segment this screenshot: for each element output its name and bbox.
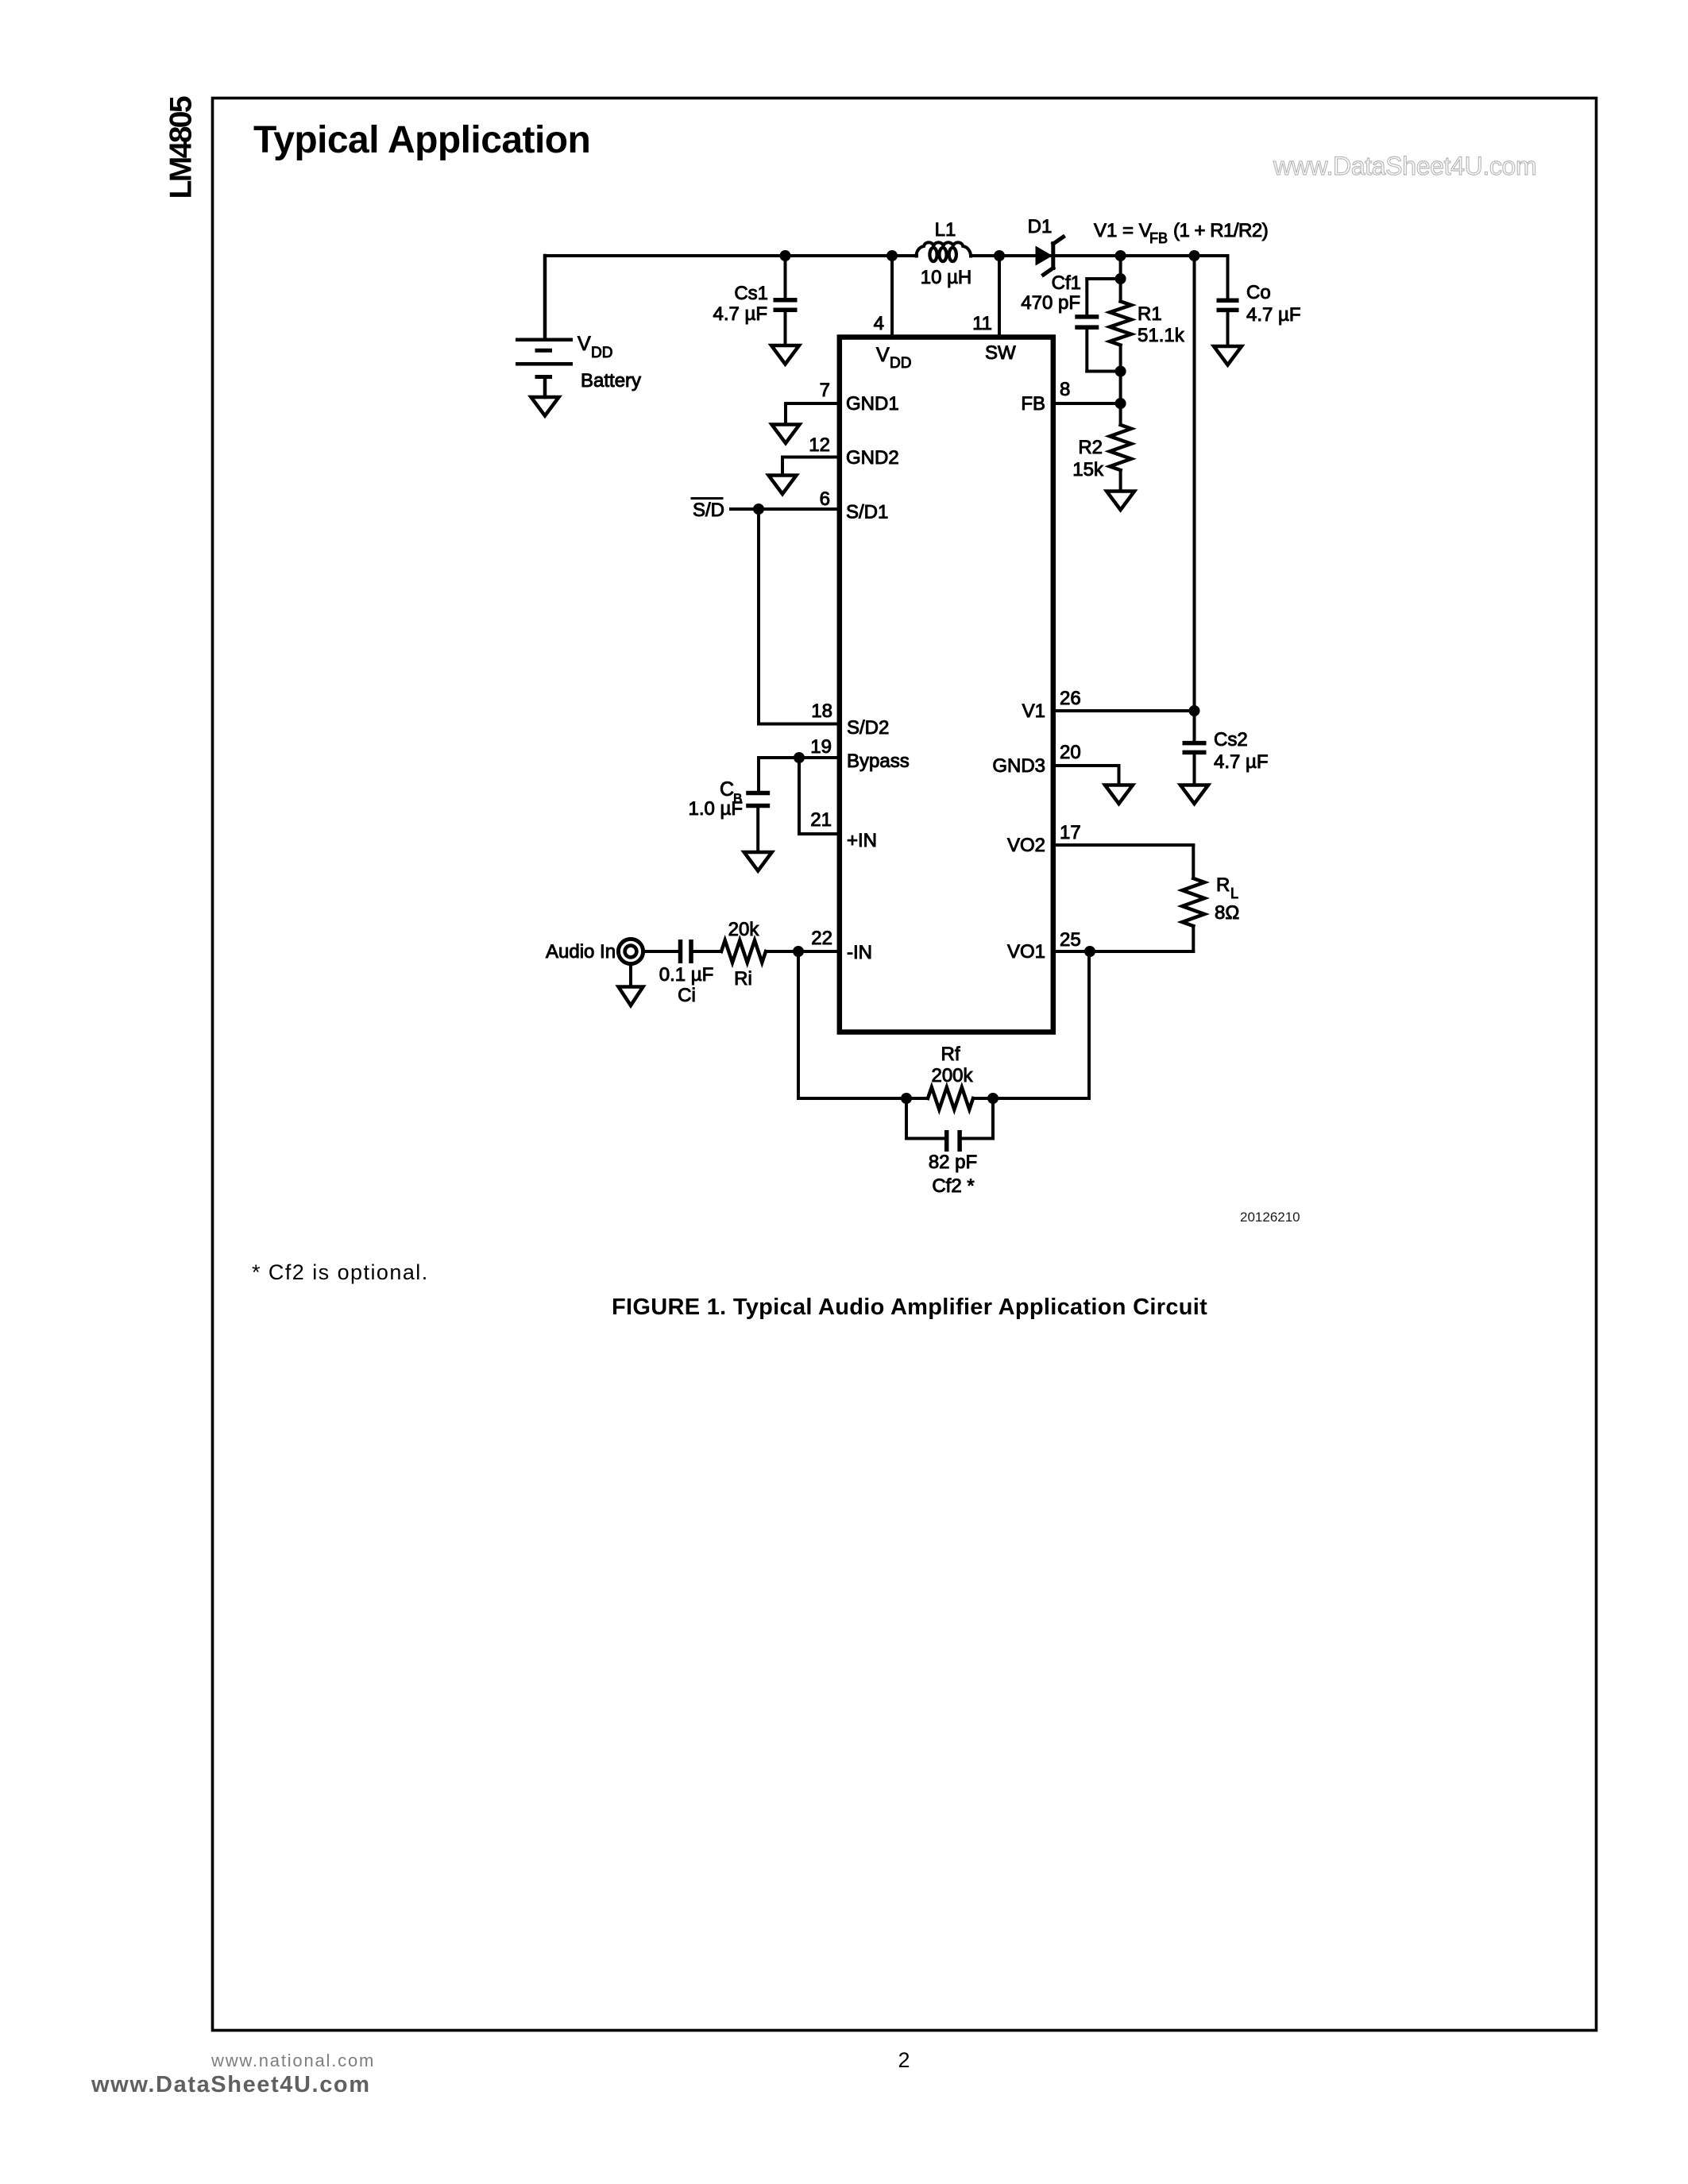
svg-text:LM4805: LM4805 bbox=[164, 96, 199, 199]
wire pin 7 GND1 bbox=[786, 403, 840, 425]
svg-text:22: 22 bbox=[811, 928, 832, 949]
svg-text:V1 = V: V1 = V bbox=[1094, 220, 1152, 241]
svg-text:R2: R2 bbox=[1078, 437, 1103, 458]
svg-text:Cf2 *: Cf2 * bbox=[932, 1175, 974, 1197]
wire pin 4 stub bbox=[890, 256, 894, 337]
svg-text:4.7 µF: 4.7 µF bbox=[1214, 751, 1269, 773]
wire node riser to Cf1/R1 bbox=[1119, 256, 1122, 279]
svg-text:1.0 µF: 1.0 µF bbox=[688, 798, 743, 820]
svg-text:D1: D1 bbox=[1028, 216, 1053, 237]
svg-text:15k: 15k bbox=[1072, 459, 1104, 480]
node dot V1 riser tap bbox=[1189, 250, 1200, 261]
capacitor Cf2 82pF bbox=[906, 1098, 993, 1152]
svg-text:Rf: Rf bbox=[941, 1044, 960, 1065]
svg-text:FB: FB bbox=[1149, 230, 1168, 246]
node dot -IN bbox=[793, 946, 804, 957]
wire pin 26 V1 bbox=[1053, 709, 1195, 712]
svg-text:20126210: 20126210 bbox=[1240, 1210, 1300, 1225]
svg-text:S/D: S/D bbox=[693, 500, 724, 521]
capacitor Co 4.7uF bbox=[1217, 256, 1239, 346]
node dot Cs1 tap bbox=[780, 250, 791, 261]
svg-text:Battery: Battery bbox=[581, 370, 641, 392]
node dot Cf1 bottom bbox=[1115, 366, 1126, 377]
svg-text:L: L bbox=[1230, 886, 1238, 901]
svg-text:www.DataSheet4U.com: www.DataSheet4U.com bbox=[1273, 152, 1536, 180]
ground below Co bbox=[1214, 346, 1242, 365]
wire Ri to pin 22 bbox=[766, 950, 840, 953]
svg-text:C: C bbox=[720, 778, 734, 801]
svg-text:4.7 µF: 4.7 µF bbox=[1246, 304, 1301, 326]
node dot Bypass bbox=[794, 752, 805, 763]
svg-text:Ri: Ri bbox=[734, 968, 752, 990]
ground below connector bbox=[629, 965, 632, 986]
svg-text:82 pF: 82 pF bbox=[929, 1152, 977, 1173]
capacitor Ci 0.1uF bbox=[644, 940, 721, 963]
svg-text:DD: DD bbox=[591, 345, 612, 361]
wire feedback right riser bbox=[1087, 951, 1091, 1098]
svg-text:Cs1: Cs1 bbox=[734, 283, 768, 304]
svg-text:+IN: +IN bbox=[847, 830, 877, 851]
ground below Cs2 bbox=[1180, 785, 1208, 805]
wire pin 20 GND3 bbox=[1053, 766, 1119, 785]
svg-text:Ci: Ci bbox=[678, 985, 696, 1006]
ground pin 12 bbox=[769, 476, 797, 495]
inductor L1 10uH bbox=[916, 242, 971, 261]
svg-text:470 pF: 470 pF bbox=[1021, 292, 1080, 314]
svg-text:12: 12 bbox=[809, 434, 830, 456]
svg-text:20: 20 bbox=[1060, 742, 1081, 763]
node dot VO1 bbox=[1084, 946, 1095, 957]
wire top rail right (L1 to Co corner) bbox=[971, 254, 1228, 257]
svg-text:8Ω: 8Ω bbox=[1215, 902, 1239, 924]
svg-text:www.DataSheet4U.com: www.DataSheet4U.com bbox=[91, 2072, 371, 2097]
wire pin 12 GND2 bbox=[782, 457, 840, 476]
node dot V1/Cs2 bbox=[1189, 705, 1200, 716]
svg-text:200k: 200k bbox=[931, 1065, 973, 1086]
node dot Cf1 top bbox=[1115, 273, 1126, 284]
svg-text:L1: L1 bbox=[935, 219, 956, 241]
wire top rail left (battery to L1) bbox=[545, 254, 917, 257]
ground below Cs1 bbox=[771, 345, 799, 365]
svg-text:V: V bbox=[577, 333, 591, 355]
battery BT1 VDD bbox=[516, 256, 573, 397]
svg-text:FIGURE 1. Typical Audio Amplif: FIGURE 1. Typical Audio Amplifier Applic… bbox=[612, 1295, 1207, 1320]
capacitor Cs1 4.7uF bbox=[774, 256, 798, 345]
svg-text:4: 4 bbox=[874, 313, 884, 334]
svg-text:Bypass: Bypass bbox=[847, 751, 910, 772]
svg-text:www.national.com: www.national.com bbox=[211, 2051, 375, 2070]
svg-text:SW: SW bbox=[985, 342, 1016, 364]
ground below battery bbox=[531, 397, 559, 416]
capacitor Cf1 470pF branch bbox=[1075, 279, 1120, 372]
svg-text:10 µH: 10 µH bbox=[921, 267, 972, 288]
svg-text:Co: Co bbox=[1246, 282, 1271, 303]
svg-text:Typical Application: Typical Application bbox=[253, 119, 590, 161]
ground pin 7 bbox=[772, 425, 800, 444]
svg-text:VO2: VO2 bbox=[1007, 835, 1045, 856]
svg-text:FB: FB bbox=[1021, 393, 1045, 415]
ground below R2 bbox=[1107, 492, 1134, 511]
wire pin 17 VO2 to RL bbox=[1053, 845, 1194, 878]
wire pin 25 VO1 bbox=[1053, 950, 1194, 953]
page border frame bbox=[213, 98, 1597, 2031]
svg-text:GND1: GND1 bbox=[846, 393, 899, 415]
resistor RL 8ohm bbox=[1182, 878, 1204, 951]
diode D1 bbox=[1036, 237, 1064, 275]
svg-text:0.1 µF: 0.1 µF bbox=[659, 964, 714, 986]
node dot S/D bbox=[753, 504, 764, 515]
ground below CB bbox=[744, 852, 772, 871]
node dot output node on rail bbox=[1115, 250, 1126, 261]
svg-text:S/D2: S/D2 bbox=[847, 717, 889, 739]
svg-text:(1 + R1/R2): (1 + R1/R2) bbox=[1173, 220, 1268, 241]
svg-text:2: 2 bbox=[898, 2048, 910, 2072]
svg-text:Audio In: Audio In bbox=[546, 941, 616, 963]
resistor R1 51.1k bbox=[1110, 279, 1131, 403]
svg-text:8: 8 bbox=[1060, 379, 1070, 400]
svg-text:20k: 20k bbox=[728, 919, 760, 940]
IC U1 LM4805 body bbox=[840, 338, 1053, 1032]
node dot Cf2 right bbox=[987, 1093, 999, 1104]
node dot FB node bbox=[1115, 398, 1126, 409]
wire Bypass to pin 21 bbox=[799, 758, 840, 834]
svg-text:DD: DD bbox=[890, 355, 911, 372]
resistor Ri 20k bbox=[721, 940, 766, 963]
svg-text:R1: R1 bbox=[1138, 303, 1162, 325]
svg-text:GND2: GND2 bbox=[846, 447, 899, 469]
svg-text:17: 17 bbox=[1060, 822, 1081, 843]
capacitor CB 1.0uF bbox=[746, 758, 770, 852]
node dot pin11 tap bbox=[994, 250, 1005, 261]
svg-text:GND3: GND3 bbox=[992, 755, 1045, 777]
svg-text:25: 25 bbox=[1060, 929, 1081, 951]
wire pin 6 S/D1 bbox=[731, 507, 840, 511]
svg-text:V: V bbox=[876, 344, 890, 366]
svg-text:R: R bbox=[1216, 874, 1230, 896]
wire feedback bottom left bbox=[798, 1097, 928, 1100]
wire feedback left drop bbox=[797, 951, 800, 1098]
wire V1 riser bbox=[1193, 256, 1196, 711]
svg-text:VO1: VO1 bbox=[1007, 941, 1045, 963]
ground pin 20 bbox=[1105, 785, 1133, 805]
connector Audio In bbox=[618, 939, 643, 963]
svg-text:11: 11 bbox=[972, 313, 992, 334]
svg-text:26: 26 bbox=[1060, 688, 1081, 709]
svg-text:Cf1: Cf1 bbox=[1052, 272, 1081, 294]
svg-text:-IN: -IN bbox=[847, 942, 872, 963]
svg-text:* Cf2 is optional.: * Cf2 is optional. bbox=[252, 1260, 429, 1284]
svg-text:6: 6 bbox=[820, 488, 830, 510]
resistor R2 15k bbox=[1110, 403, 1131, 492]
svg-text:S/D1: S/D1 bbox=[846, 502, 888, 523]
node dot pin4 tap bbox=[886, 250, 898, 261]
node dot Cf2 left bbox=[901, 1093, 912, 1104]
wire S/D to pin 18 bbox=[759, 509, 840, 724]
svg-text:4.7 µF: 4.7 µF bbox=[713, 303, 767, 325]
svg-text:18: 18 bbox=[811, 700, 832, 722]
svg-text:51.1k: 51.1k bbox=[1138, 325, 1185, 346]
wire feedback bottom right bbox=[973, 1097, 1089, 1100]
resistor Rf 200k bbox=[928, 1087, 973, 1109]
svg-text:Cs2: Cs2 bbox=[1214, 729, 1248, 751]
svg-text:19: 19 bbox=[810, 736, 832, 758]
wire FB pin 8 bbox=[1053, 402, 1121, 405]
svg-text:7: 7 bbox=[820, 380, 830, 401]
capacitor Cs2 4.7uF bbox=[1183, 711, 1207, 785]
wire pin 11 stub bbox=[998, 256, 1001, 337]
svg-text:V1: V1 bbox=[1022, 700, 1045, 722]
wire pin 19 Bypass bbox=[759, 756, 840, 759]
svg-text:21: 21 bbox=[810, 809, 832, 831]
